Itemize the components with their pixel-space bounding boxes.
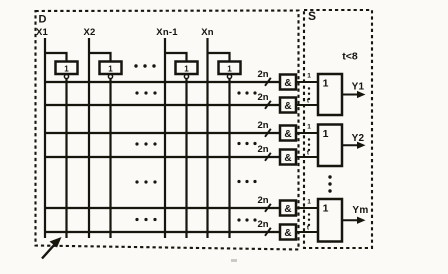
ellipsis omitted rows (right band) [237,218,240,221]
svg-text:1: 1 [323,78,329,90]
svg-text:&: & [284,101,291,112]
pin ellipsis (Y2) [308,138,310,140]
inverter box Xn-1 (1) [176,62,198,75]
wire output Y1 arrow [342,91,366,98]
inverter bubble Xn-1 [184,74,188,78]
ellipsis omitted columns (middle band) [135,91,138,94]
svg-text:&: & [284,153,291,164]
inverter bubble Xn [227,74,231,78]
or-box UYm (1) [318,199,342,242]
wire product row 4 [45,156,280,158]
svg-text:X2: X2 [83,27,95,38]
svg-text:1: 1 [307,73,311,80]
wire product row 1 [45,81,280,83]
svg-text:D: D [39,14,47,26]
wire product row 6 [45,231,280,233]
svg-text:1: 1 [184,65,189,74]
wire and-gate A4 output [296,156,318,158]
bus slash row 3 [265,129,271,137]
ellipsis omitted rows (right band) [237,91,240,94]
ellipsis omitted columns (middle band) [135,142,138,145]
and-gate A3 [280,126,296,141]
wire and-gate A3 output [296,132,318,134]
inverter bubble X1 [64,74,68,78]
wire product row 5 [45,207,280,209]
svg-text:1: 1 [307,124,311,131]
svg-text:2n: 2n [257,120,268,131]
inverter box Xn (1) [219,62,241,75]
and-gate A4 [280,150,296,165]
wire and-gate A1 output [296,81,318,83]
svg-text:2n: 2n [257,195,268,206]
wire Xn-1 true column [164,38,166,238]
and-gate A5 [280,201,296,216]
and-gate A6 [280,225,296,240]
svg-text:Xn: Xn [201,27,214,38]
wire output Ym arrow [342,217,366,224]
annotation arrow (crosspoint) [42,237,62,259]
wire X1 complement column [65,79,67,238]
svg-text:Y2: Y2 [352,133,365,144]
wire X2 complement column [109,79,111,238]
wire Xn branch to inverter [208,53,230,62]
inverter bubble X2 [108,74,112,78]
svg-text:&: & [284,129,291,140]
svg-text:1: 1 [227,65,232,74]
svg-text:2n: 2n [257,92,268,103]
wire Xn-1 branch to inverter [165,53,187,62]
or-box UY1 (1) [318,74,342,115]
scan smudge [231,259,237,262]
svg-text:2n: 2n [257,144,268,155]
svg-text:X1: X1 [36,27,49,38]
and-gate A1 [280,75,296,90]
wire and-gate A2 output [296,104,318,106]
wire output Y2 arrow [342,142,366,149]
svg-text:1: 1 [64,65,69,74]
dashed box D [36,11,299,250]
svg-text:2n: 2n [257,69,268,80]
wire X1 true column [44,38,46,238]
svg-text:Xn-1: Xn-1 [156,27,178,38]
wire Xn true column [206,38,208,238]
inverter box X2 (1) [100,62,122,75]
bus slash row 4 [265,153,271,161]
svg-text:S: S [308,9,316,23]
ellipsis omitted inverters (top) [134,64,137,67]
svg-text:1: 1 [323,128,329,140]
ellipsis omitted columns (middle band) [135,180,138,183]
bus slash row 5 [265,204,271,212]
svg-text:t<8: t<8 [342,51,358,63]
svg-text:&: & [284,204,291,215]
wire X2 branch to inverter [89,53,111,62]
svg-text:&: & [284,78,291,89]
ellipsis omitted rows (right band) [237,142,240,145]
or-box UY2 (1) [318,125,342,167]
wire product row 3 [45,132,280,134]
svg-text:Ym: Ym [352,205,368,216]
svg-text:1: 1 [323,203,329,215]
svg-text:Y1: Y1 [352,82,365,93]
wire and-gate A5 output [296,207,318,209]
ellipsis omitted columns (middle band) [135,218,138,221]
wire and-gate A6 output [296,231,318,233]
svg-text:1: 1 [108,65,113,74]
wire Xn-1 complement column [185,79,187,238]
wire product row 2 [45,104,280,106]
and-gate A2 [280,98,296,113]
ellipsis omitted rows (right band) [237,180,240,183]
ellipsis omitted or-boxes [328,175,331,178]
inverter box X1 (1) [56,62,78,75]
svg-text:2n: 2n [257,219,268,230]
bus slash row 2 [265,101,271,109]
bus slash row 1 [265,78,271,86]
wire X2 true column [88,38,90,238]
pin ellipsis (Ym) [308,213,310,215]
wire X1 branch to inverter [45,53,67,62]
dashed box S [304,10,372,248]
svg-text:1: 1 [307,199,311,206]
svg-text:&: & [284,228,291,239]
wire Xn complement column [228,79,230,238]
pin ellipsis (Y1) [308,87,310,89]
bus slash row 6 [265,228,271,236]
